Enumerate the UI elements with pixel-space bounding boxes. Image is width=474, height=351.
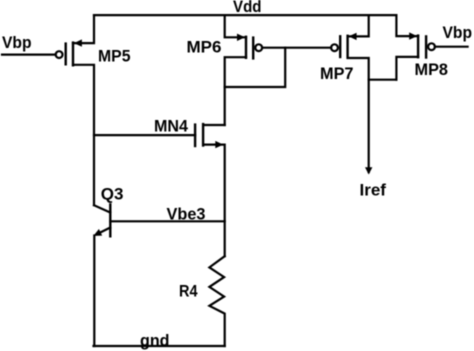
svg-text:MP8: MP8 (415, 60, 449, 79)
svg-text:Iref: Iref (360, 181, 387, 200)
svg-text:Vbp: Vbp (443, 23, 473, 42)
svg-text:MN4: MN4 (154, 117, 189, 136)
svg-text:Vbe3: Vbe3 (167, 204, 206, 223)
svg-text:gnd: gnd (140, 331, 170, 350)
svg-text:Q3: Q3 (101, 185, 124, 204)
svg-text:MP7: MP7 (320, 64, 354, 83)
svg-text:MP5: MP5 (98, 47, 131, 66)
svg-text:Vdd: Vdd (233, 0, 262, 16)
svg-text:MP6: MP6 (187, 38, 222, 57)
svg-text:R4: R4 (179, 282, 198, 301)
svg-text:Vbp: Vbp (2, 33, 32, 52)
